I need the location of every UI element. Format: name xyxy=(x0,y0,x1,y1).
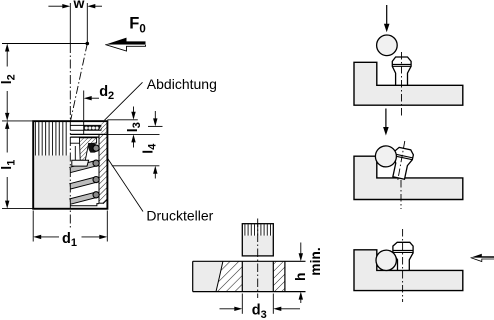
wall bottom chamfer xyxy=(103,200,107,204)
druckteller step line xyxy=(70,142,79,144)
Abdichtung leader xyxy=(105,82,143,120)
spring coil end circle 1 xyxy=(93,145,99,151)
spring coil end circle 4 xyxy=(93,192,99,198)
plunger 2 tilted xyxy=(390,147,415,180)
svg-text:Druckteller: Druckteller xyxy=(146,208,213,224)
spring coil bar 3 xyxy=(70,180,96,187)
d1 extension lines xyxy=(32,211,34,242)
body outline xyxy=(33,121,107,209)
plate right edge xyxy=(284,261,286,291)
l3 top extension line xyxy=(107,119,137,121)
spring coil end circle 3 xyxy=(93,177,99,183)
plunger 1 xyxy=(392,57,411,85)
plate hatch right xyxy=(273,261,285,291)
l4 arrows xyxy=(153,118,157,126)
ball 2 xyxy=(375,146,396,167)
body left-half gray fill xyxy=(34,156,70,208)
l4 bottom extension line xyxy=(112,165,160,167)
bore bottom xyxy=(70,204,99,206)
plate hatch left xyxy=(216,261,242,291)
druckteller top line xyxy=(70,136,99,138)
body top extension left xyxy=(2,120,33,122)
centerline 1 xyxy=(401,52,403,118)
block 3 xyxy=(354,250,463,291)
plate body xyxy=(193,261,285,291)
arrow 3 half-filled xyxy=(471,254,494,258)
knurling lines xyxy=(35,122,66,156)
hole centerline xyxy=(257,219,259,299)
centerline 2 lower xyxy=(400,180,402,209)
o-ring black xyxy=(88,143,98,153)
Druckteller leader xyxy=(107,158,143,212)
arrow 1 xyxy=(386,5,388,26)
l4 top extension line xyxy=(148,125,163,127)
h dimension arrows xyxy=(300,243,302,256)
seal washer line2 xyxy=(70,129,101,131)
druckteller bottom flange xyxy=(72,160,89,166)
block 2 xyxy=(354,156,463,199)
svg-text:h: h xyxy=(293,273,308,281)
plunger 3 xyxy=(393,242,413,270)
seal packing dark band xyxy=(84,126,102,131)
l3 bottom extension line xyxy=(106,133,160,135)
plate top line w extension xyxy=(193,260,306,262)
svg-text:min.: min. xyxy=(308,247,323,275)
seal bore edge line xyxy=(83,122,85,134)
w extension right xyxy=(86,3,88,44)
d2 arrow xyxy=(84,96,92,100)
d1 dimension xyxy=(33,235,107,239)
RIGHT-ILLUSTRATIONS xyxy=(354,5,494,302)
spring coil bar 4 xyxy=(70,195,96,202)
d3 extension lines xyxy=(241,294,243,314)
hole edges xyxy=(241,261,243,291)
w dim arrows xyxy=(62,4,95,8)
centerline 3 xyxy=(402,229,404,302)
right wall hatch xyxy=(99,134,107,203)
plate bottom line w extension xyxy=(193,291,306,293)
spring coil end circle 2 xyxy=(93,160,99,166)
deflected centerline xyxy=(71,44,88,121)
seal gland bottom line xyxy=(70,133,106,135)
d3 dimension xyxy=(220,308,238,310)
l1 dimension xyxy=(5,121,9,209)
druckteller pin line xyxy=(74,146,76,160)
plate break line xyxy=(216,261,223,291)
F0 force arrow xyxy=(105,38,145,45)
ball 1 xyxy=(377,35,398,56)
body bottom extension left xyxy=(2,208,33,210)
seal washer line1 xyxy=(70,124,101,126)
MAIN-VIEW xyxy=(0,0,217,249)
l3 arrows xyxy=(131,112,135,120)
svg-text:w: w xyxy=(72,0,84,11)
l2 dimension xyxy=(5,44,9,121)
seal packing circles xyxy=(85,126,102,130)
wall bottom line xyxy=(99,202,104,204)
centerline 2 tilted xyxy=(398,141,405,180)
spring coil bar 2 xyxy=(70,163,96,170)
DETAIL-VIEW xyxy=(193,219,323,320)
plate left edge xyxy=(192,261,194,291)
l2 top extension line xyxy=(2,43,87,45)
block 1 xyxy=(354,62,463,105)
arrow 2 xyxy=(385,109,387,130)
pivot dot xyxy=(86,42,90,46)
d2 extension line xyxy=(83,91,85,121)
druckteller hatched body xyxy=(79,138,96,161)
svg-text:Abdichtung: Abdichtung xyxy=(147,76,217,92)
plunger above plate xyxy=(242,224,273,256)
ball 3 xyxy=(376,250,396,270)
seal gland corner hatch xyxy=(101,122,106,134)
wall inner bore line xyxy=(98,134,100,203)
centerline vertical xyxy=(69,3,71,44)
